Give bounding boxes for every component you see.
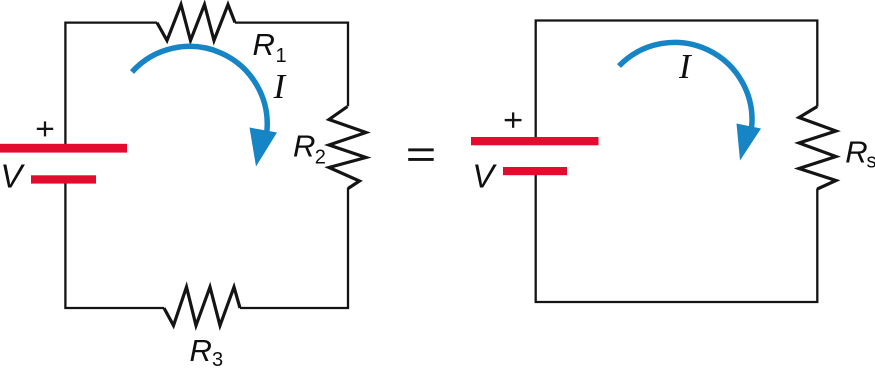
resistor R1 (top of left circuit): [157, 5, 235, 41]
svg-text:R: R: [190, 333, 212, 368]
resistor R3 (bottom of left circuit): [164, 287, 240, 326]
battery V (right circuit): long positive plate: [471, 137, 599, 145]
svg-text:R: R: [293, 129, 315, 164]
wire right circuit: Rs bottom, bottom-right corner, bottom side, up to battery bottom plate: [536, 175, 818, 302]
wire left circuit: battery top plate up, top-left corner, to R1 left terminal: [65, 23, 157, 145]
svg-text:2: 2: [315, 147, 326, 169]
battery V (left circuit): long positive plate: [0, 144, 127, 153]
equals sign between circuits: [408, 148, 434, 161]
svg-text:R: R: [845, 134, 867, 169]
resistor R2 (right side of left circuit): [329, 107, 366, 189]
svg-text:1: 1: [276, 45, 287, 67]
current arrowhead (left circuit): [250, 128, 278, 167]
battery V (right circuit): short negative plate: [503, 167, 567, 175]
current arrowhead (right circuit): [737, 124, 762, 161]
current arrow arc I (left circuit): [132, 46, 267, 132]
plus sign (left battery polarity): [37, 121, 53, 136]
resistor Rs (right side of right circuit): [799, 107, 836, 190]
battery V (left circuit): short negative plate: [31, 175, 96, 183]
svg-text:V: V: [0, 157, 25, 194]
svg-text:R: R: [253, 27, 275, 62]
svg-text:I: I: [273, 67, 288, 106]
wire left circuit: R1 right terminal, top-right corner, down to R2 top: [235, 23, 348, 107]
svg-text:3: 3: [212, 349, 223, 371]
svg-text:V: V: [472, 158, 497, 195]
current arrow arc I (right circuit): [619, 42, 752, 130]
svg-text:I: I: [678, 47, 693, 86]
wire left circuit: R2 bottom, bottom-right corner, to R3 right terminal: [240, 188, 348, 308]
wire right circuit: battery top plate up, top-left corner, top side, down to Rs top: [536, 21, 818, 138]
plus sign (right battery polarity): [505, 112, 522, 127]
wire left circuit: R3 left terminal, bottom-left corner, up to battery bottom plate: [65, 183, 164, 308]
svg-text:s: s: [867, 151, 875, 173]
